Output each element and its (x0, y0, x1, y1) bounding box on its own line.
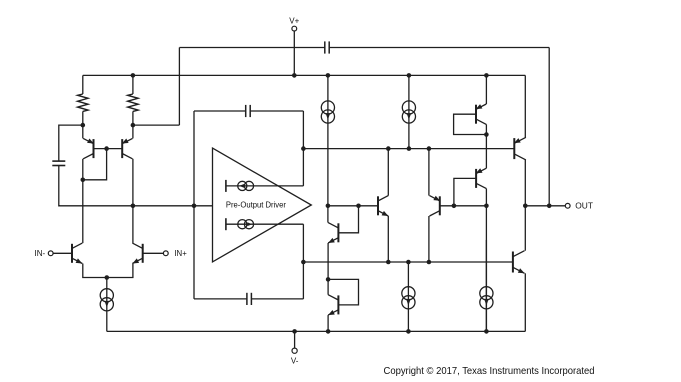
node Q12 collector on rail3 (427, 260, 432, 265)
transistor Q2 (121, 139, 123, 158)
capacitor C4 (246, 293, 248, 305)
wire Q9 collector down to V- rail (485, 189, 487, 332)
wire Q1 collector (82, 159, 84, 180)
svg-text:Pre-Output Driver: Pre-Output Driver (226, 200, 286, 209)
wire base-to-collector loop (83, 149, 107, 180)
node R2 top (131, 73, 136, 78)
node V- terminal junction (292, 329, 297, 334)
wire V- rail (107, 330, 526, 332)
capacitor C3 (245, 105, 247, 117)
node I7 bottom (484, 329, 489, 334)
node Q7 emitter on V- rail (326, 329, 331, 334)
node Q1-Q2 base (104, 146, 109, 151)
wire box top (194, 110, 246, 112)
capacitor C2 (52, 160, 65, 162)
wire IN- base (53, 252, 72, 254)
wire V- terminal (294, 331, 296, 348)
wire R1 bottom to C2 (59, 125, 83, 161)
wire Q5 emitter (387, 216, 389, 262)
wire Q2 emitter (132, 125, 134, 138)
node Q12 emitter on rail2 (427, 146, 432, 151)
wire Q10 emitter (485, 75, 487, 104)
wire Q12 base W3 (440, 205, 487, 207)
terminal OUT (565, 203, 570, 208)
wire Q6 base loop (338, 206, 358, 233)
transistor Q1 (93, 139, 95, 158)
wire compensation rail (top feedback) (179, 47, 324, 49)
node OUT feedback junction (547, 204, 552, 209)
node tail (105, 275, 110, 280)
node R1 bottom (81, 123, 86, 128)
current source I5 (lower bias) (225, 218, 227, 230)
wire Q4 emitter (107, 264, 133, 278)
terminal IN+ (163, 251, 168, 256)
resistor R2 (132, 75, 134, 94)
wire box bottom (194, 298, 247, 300)
node R2 bottom (131, 123, 136, 128)
wire rail2 (upper mid rail) (303, 148, 514, 150)
transistor Q3 (71, 244, 73, 263)
wire R2 bottom to feedback drop (133, 124, 180, 126)
wire Q12 emitter (428, 149, 430, 196)
wire feedback right drop to OUT (548, 48, 550, 206)
transistor Q5 (377, 196, 379, 215)
node Q10 emitter top (484, 73, 489, 78)
svg-text:OUT: OUT (575, 201, 593, 211)
transistor Q12 (439, 196, 441, 215)
wire Q2 collector to signal wire (132, 159, 134, 206)
svg-text:IN-: IN- (35, 249, 46, 258)
wire Q7 collector (327, 279, 329, 294)
wire Q11 collector to OUT (524, 206, 526, 251)
wire Q1 base to Q2 base (94, 148, 123, 150)
terminal V+ (292, 26, 297, 31)
wire Q1-Q3 collector link (82, 180, 84, 243)
current source I1 (327, 75, 329, 205)
wire rail3 (lower mid rail) (303, 261, 513, 263)
wire Q6 collector (327, 206, 329, 223)
wire input-stage signal node (59, 205, 213, 207)
transistor Q6 (diode) (337, 223, 339, 242)
wire compensation box left (193, 111, 195, 299)
node Q1 collector (81, 178, 86, 183)
current source I3 (tail) (106, 278, 108, 332)
node Q6 base loop on base wire (356, 204, 361, 209)
transistor Q9 (475, 169, 477, 188)
wire V+ to top rail (293, 31, 295, 75)
wire C2 to input node (59, 166, 60, 206)
wire feedback left drop (178, 48, 180, 126)
resistor R1 (82, 75, 84, 94)
node Q8 collector (523, 204, 528, 209)
wire Q9 base (454, 178, 476, 205)
wire Q10 base loop (454, 114, 487, 134)
wire Q6 emitter to Q7 (327, 243, 329, 279)
wire Q11 emitter to V- rail (524, 273, 526, 331)
wire V+ rail (83, 74, 526, 76)
node Q6-Q7 link (326, 277, 331, 282)
node I2 bottom (407, 146, 412, 151)
current source I4 (upper bias) (225, 180, 227, 192)
node box right on rail2 (301, 146, 306, 151)
node Q10 collector-base (484, 132, 489, 137)
wire Q1 emitter (82, 125, 84, 138)
current source I6 (407, 262, 409, 331)
wire OUT (525, 205, 565, 207)
svg-text:V+: V+ (289, 16, 299, 25)
transistor Q11 (output low) (512, 252, 514, 273)
node V+ junction (292, 73, 297, 78)
node Q2-Q4 collectors (131, 204, 136, 209)
svg-text:V-: V- (291, 357, 299, 366)
wire Q12 collector (428, 216, 430, 262)
capacitor C1 (324, 41, 326, 53)
wire Q8 collector to OUT (524, 160, 526, 206)
wire Q8 emitter from V+ rail (524, 75, 526, 137)
op-amp U1 pre-output driver triangle (213, 148, 312, 262)
wire IN+ base (143, 252, 164, 254)
wire Q4 collector (132, 206, 134, 243)
node Q6 top / Q5 base wire (326, 204, 331, 209)
terminal IN- (48, 251, 53, 256)
wire box right lower (302, 224, 304, 299)
svg-text:Copyright © 2017, Texas Instru: Copyright © 2017, Texas Instruments Inco… (384, 366, 595, 377)
wire Q5 collector (387, 149, 389, 196)
node Q9 base on W3 (452, 204, 457, 209)
node Q9 collector on W3 (484, 204, 489, 209)
transistor Q4 (142, 244, 144, 263)
node I2 top (407, 73, 412, 78)
node Q5 collector on rail2 (386, 146, 391, 151)
node Q5 emitter on rail3 (386, 260, 391, 265)
wire Q10 collector (485, 124, 487, 134)
svg-text:IN+: IN+ (174, 249, 187, 258)
current source I2 (408, 75, 410, 148)
node I1 top (326, 73, 331, 78)
node I6 bottom (406, 329, 411, 334)
wire Q5 base (328, 205, 378, 207)
current source I7 (485, 240, 487, 331)
node box right on rail3 (301, 260, 306, 265)
terminal V- (292, 348, 297, 353)
wire Q7 base loop (328, 279, 358, 305)
wire Q3 emitter (83, 264, 107, 278)
wire box right upper (302, 111, 304, 186)
transistor Q8 (output high) (513, 138, 515, 159)
transistor Q7 (diode) (337, 295, 339, 314)
transistor Q10 (diode) (475, 105, 477, 124)
node compensation tap (192, 204, 197, 209)
wire Q7 emitter to V- rail (327, 315, 329, 331)
wire Q10 to Q9 emitter (485, 135, 487, 169)
node I6 top (406, 260, 411, 265)
